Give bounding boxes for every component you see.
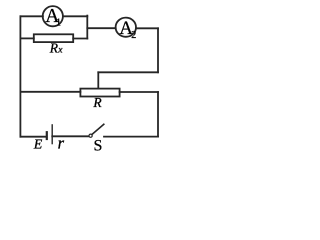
svg-text:E: E [33,137,43,152]
svg-text:S: S [94,137,103,154]
wire: lower right vertical [157,92,159,137]
battery E: long plate [51,125,53,144]
battery E: short plate [46,132,48,139]
wire: battery to switch pivot [52,135,88,137]
resistor Rx [34,34,73,55]
svg-text:x: x [57,45,63,55]
wire: A1 to node B [63,15,87,17]
svg-text:R: R [92,95,102,110]
wire: bottom rail, right segment to switch [104,136,158,138]
wire: node A to resistor Rx [20,37,33,39]
ammeter A1 [43,6,63,29]
svg-text:2: 2 [131,30,136,41]
resistor R [80,89,119,110]
wire: bottom rail, left segment to battery [20,136,46,138]
switch S pivot contact [89,134,92,137]
wire: node B to ammeter A2 [87,27,115,29]
node B vertical junction wire [86,16,88,39]
svg-text:R: R [49,40,59,55]
wire: left vertical rail [19,16,21,136]
wire: upper right vertical [157,28,159,72]
switch S blade [92,124,104,134]
wire: Rx to node B [73,38,87,40]
wire: A2 to top-right corner [136,27,158,29]
ammeter A2 [116,18,137,41]
wire: top-left corner to ammeter A1 [20,15,43,17]
wire: middle rail left of R [20,91,80,93]
wire: R to right rail [120,91,158,93]
wire: drop to top of resistor R [97,72,99,88]
svg-text:1: 1 [56,18,61,29]
wire: horizontal return toward R [98,71,158,73]
